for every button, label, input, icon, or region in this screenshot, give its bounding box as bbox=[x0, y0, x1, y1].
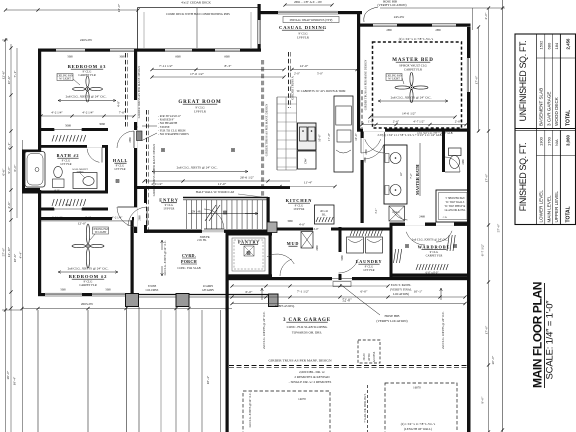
svg-text:3068: 3068 bbox=[119, 56, 125, 59]
svg-text:CASUAL DINING: CASUAL DINING bbox=[279, 25, 327, 30]
svg-text:4′-6″: 4′-6″ bbox=[299, 223, 306, 227]
svg-text:2x6 CLG. JOISTS @ 24″ O.C.: 2x6 CLG. JOISTS @ 24″ O.C. bbox=[262, 311, 266, 349]
svg-text:14′-0 1/2″: 14′-0 1/2″ bbox=[402, 112, 417, 116]
svg-text:2′-6″: 2′-6″ bbox=[393, 120, 400, 124]
svg-text:COMP. DECK WITH H2O CONDITIONI: COMP. DECK WITH H2O CONDITIONING PMS bbox=[166, 12, 230, 16]
svg-text:LVP FLR: LVP FLR bbox=[164, 207, 175, 211]
svg-text:57′-0″: 57′-0″ bbox=[2, 247, 6, 256]
svg-text:2x6 CLG. JOISTS @ 24″ O.C.: 2x6 CLG. JOISTS @ 24″ O.C. bbox=[412, 238, 449, 242]
svg-text:3′-1″: 3′-1″ bbox=[374, 207, 378, 213]
svg-text:26′-0″: 26′-0″ bbox=[6, 370, 10, 379]
svg-text:SCALE: 1/4″ = 1′-0″: SCALE: 1/4″ = 1′-0″ bbox=[545, 300, 556, 380]
svg-text:- SINGLE DR. w/ 2 REMOTES: - SINGLE DR. w/ 2 REMOTES bbox=[289, 380, 332, 384]
svg-text:LVT FLR: LVT FLR bbox=[60, 162, 71, 166]
svg-text:LVP FLR: LVP FLR bbox=[194, 110, 207, 114]
svg-text:BATH #2: BATH #2 bbox=[57, 153, 80, 158]
svg-text:2x6 CLG. JOISTS @ 24″ O.C.: 2x6 CLG. JOISTS @ 24″ O.C. bbox=[163, 240, 167, 275]
svg-text:MAIN LEVEL: MAIN LEVEL bbox=[546, 195, 551, 223]
svg-text:2868: 2868 bbox=[364, 157, 367, 163]
svg-text:7′-11 1/2″: 7′-11 1/2″ bbox=[159, 64, 174, 68]
svg-text:2468: 2468 bbox=[462, 159, 465, 165]
svg-text:GIRDER TRUSS AS PER MANF. DESI: GIRDER TRUSS AS PER MANF. DESIGN bbox=[364, 60, 368, 110]
svg-text:7′-1″: 7′-1″ bbox=[13, 70, 17, 77]
svg-text:7′-2″: 7′-2″ bbox=[409, 172, 413, 178]
svg-text:8′-3″: 8′-3″ bbox=[225, 64, 232, 68]
svg-text:20 AMPS: 20 AMPS bbox=[203, 285, 214, 288]
svg-text:2868: 2868 bbox=[386, 29, 392, 32]
svg-text:2′-0″: 2′-0″ bbox=[455, 120, 462, 124]
svg-text:2′-6″: 2′-6″ bbox=[85, 216, 92, 220]
svg-text:INSTALL WRAP WINDOWS (TYP): INSTALL WRAP WINDOWS (TYP) bbox=[290, 18, 333, 22]
svg-text:FINISHED SQ. FT.: FINISHED SQ. FT. bbox=[518, 143, 528, 212]
svg-text:6′-0″: 6′-0″ bbox=[361, 290, 368, 294]
svg-text:BEDROOM #2: BEDROOM #2 bbox=[69, 274, 108, 279]
svg-text:PORCH: PORCH bbox=[181, 259, 198, 264]
svg-text:5068: 5068 bbox=[105, 289, 111, 292]
svg-text:BASEMENT SLAB: BASEMENT SLAB bbox=[539, 88, 544, 126]
svg-text:2468: 2468 bbox=[419, 215, 425, 219]
svg-text:2151 FR.: 2151 FR. bbox=[197, 239, 207, 242]
svg-text:(2) 1 3/4″ x 11 7/8″ + 4 1/2″: (2) 1 3/4″ x 11 7/8″ + 4 1/2″ GLB bbox=[417, 132, 452, 135]
svg-text:57′-0″: 57′-0″ bbox=[497, 223, 501, 232]
svg-text:3,060: 3,060 bbox=[566, 134, 571, 146]
svg-text:2663.2W: 2663.2W bbox=[81, 302, 94, 306]
svg-text:5′-1″: 5′-1″ bbox=[360, 181, 364, 187]
svg-text:CONC. FLR SLAB: CONC. FLR SLAB bbox=[177, 266, 200, 270]
svg-text:MAIN FLOOR PLAN: MAIN FLOOR PLAN bbox=[531, 282, 545, 388]
svg-text:LAUNDRY: LAUNDRY bbox=[356, 259, 383, 264]
svg-text:17′-0 1/2″: 17′-0 1/2″ bbox=[190, 72, 205, 76]
svg-text:2x6 CLG. JOISTS @ 24″ O.C.: 2x6 CLG. JOISTS @ 24″ O.C. bbox=[441, 311, 445, 349]
svg-text:4′x12′ CEDAR DECK: 4′x12′ CEDAR DECK bbox=[181, 1, 211, 5]
svg-text:COLUMNS: COLUMNS bbox=[146, 289, 159, 292]
svg-text:2x6 CLG. JOISTS @ 24″ O.C.: 2x6 CLG. JOISTS @ 24″ O.C. bbox=[391, 96, 432, 100]
svg-text:STEPS AS REQ.: STEPS AS REQ. bbox=[275, 304, 295, 308]
svg-text:9′-0″: 9′-0″ bbox=[7, 166, 11, 173]
svg-text:(2) 1 3/4″ x 11 7/8″ L.V.L.’s: (2) 1 3/4″ x 11 7/8″ L.V.L.’s bbox=[399, 37, 434, 41]
svg-text:184: 184 bbox=[554, 42, 559, 49]
svg-text:ACCESS: ACCESS bbox=[372, 351, 376, 362]
svg-text:TOTAL: TOTAL bbox=[566, 110, 572, 126]
svg-text:3068: 3068 bbox=[287, 220, 293, 223]
svg-text:680: 680 bbox=[546, 42, 551, 49]
svg-text:6068: 6068 bbox=[224, 56, 230, 59]
svg-text:(VERIFY LOCATION): (VERIFY LOCATION) bbox=[376, 319, 407, 323]
svg-text:ATTIC: ATTIC bbox=[367, 353, 371, 361]
svg-text:CARPET FLR: CARPET FLR bbox=[404, 68, 423, 72]
svg-text:DW: DW bbox=[304, 158, 308, 163]
svg-text:5068: 5068 bbox=[67, 56, 73, 59]
svg-text:1300: 1300 bbox=[539, 136, 544, 146]
svg-text:TOWARDS OH. DRS.: TOWARDS OH. DRS. bbox=[292, 331, 323, 335]
svg-text:LVP FLR: LVP FLR bbox=[294, 207, 305, 211]
svg-text:18′-4″: 18′-4″ bbox=[206, 375, 210, 384]
svg-text:10′-6″: 10′-6″ bbox=[318, 133, 322, 141]
svg-text:14070: 14070 bbox=[298, 397, 306, 401]
svg-text:16070: 16070 bbox=[413, 386, 421, 390]
svg-text:PANTRY: PANTRY bbox=[238, 240, 260, 245]
svg-text:2868: 2868 bbox=[435, 29, 441, 32]
svg-text:2′-0″: 2′-0″ bbox=[294, 72, 301, 76]
svg-text:TOTAL: TOTAL bbox=[566, 206, 572, 222]
svg-text:30x30: 30x30 bbox=[362, 353, 366, 361]
svg-text:245.2W: 245.2W bbox=[394, 15, 405, 19]
svg-text:HOSE BIB: HOSE BIB bbox=[385, 314, 401, 318]
svg-text:5068: 5068 bbox=[341, 255, 344, 261]
svg-text:CARPET FLR: CARPET FLR bbox=[426, 254, 443, 258]
svg-text:10′-6″: 10′-6″ bbox=[7, 75, 11, 84]
svg-text:6′-7 1/2″: 6′-7 1/2″ bbox=[481, 243, 485, 256]
svg-text:LOCATION): LOCATION) bbox=[393, 292, 409, 296]
svg-text:(VERIFY FINAL: (VERIFY FINAL bbox=[390, 288, 412, 292]
svg-text:5′-0″: 5′-0″ bbox=[317, 72, 324, 76]
svg-text:2468: 2468 bbox=[365, 149, 368, 155]
svg-text:10′-6″: 10′-6″ bbox=[354, 132, 358, 140]
svg-text:7′ GAR. DR. HDR. HGT.: 7′ GAR. DR. HDR. HGT. bbox=[363, 393, 367, 422]
svg-text:1592: 1592 bbox=[539, 40, 544, 50]
svg-text:N/A: N/A bbox=[554, 139, 559, 146]
svg-text:5068: 5068 bbox=[65, 203, 71, 207]
svg-text:1760: 1760 bbox=[546, 136, 551, 146]
svg-text:6′-0″: 6′-0″ bbox=[246, 290, 253, 294]
svg-text:18′-4″: 18′-4″ bbox=[13, 376, 17, 385]
svg-text:HALL: HALL bbox=[113, 158, 128, 163]
svg-text:BEDROOM #3: BEDROOM #3 bbox=[68, 64, 107, 69]
svg-text:- NO WRAPPED SIDES: - NO WRAPPED SIDES bbox=[158, 132, 189, 136]
svg-text:18′-6″: 18′-6″ bbox=[13, 253, 17, 262]
svg-text:12′-6″: 12′-6″ bbox=[2, 70, 6, 79]
svg-text:2868: 2868 bbox=[129, 137, 132, 143]
svg-text:LOWER LEVEL: LOWER LEVEL bbox=[539, 190, 544, 223]
svg-text:LVP FLR: LVP FLR bbox=[297, 36, 310, 40]
svg-text:2868: 2868 bbox=[139, 215, 142, 221]
svg-text:(LENGTH OF WALL): (LENGTH OF WALL) bbox=[404, 427, 432, 431]
svg-text:GIRDER TRUSS AS PER MANF. DESI: GIRDER TRUSS AS PER MANF. DESIGN bbox=[152, 143, 156, 196]
svg-text:GIRDER TRUSS AS PER MANF. DESI: GIRDER TRUSS AS PER MANF. DESIGN bbox=[268, 359, 331, 363]
svg-text:UNFINISHED SQ. FT.: UNFINISHED SQ. FT. bbox=[518, 41, 528, 122]
svg-text:7′-1 1/2″: 7′-1 1/2″ bbox=[297, 290, 310, 294]
svg-text:(2) 1 3/4″ x 11 7/8″ L.V.L.’s: (2) 1 3/4″ x 11 7/8″ L.V.L.’s bbox=[401, 422, 436, 426]
svg-text:2,456: 2,456 bbox=[566, 38, 571, 50]
svg-text:W/ TILE WALLS: W/ TILE WALLS bbox=[446, 201, 465, 204]
svg-text:17′-0″: 17′-0″ bbox=[485, 173, 489, 182]
svg-text:9′-0″: 9′-0″ bbox=[481, 396, 485, 403]
svg-text:GLASS DR & PNL: GLASS DR & PNL bbox=[445, 209, 466, 212]
svg-text:KITCHEN: KITCHEN bbox=[286, 198, 313, 203]
svg-text:6′-0″: 6′-0″ bbox=[13, 164, 17, 171]
svg-text:12′-0″: 12′-0″ bbox=[117, 3, 121, 12]
svg-text:MASTER BATH: MASTER BATH bbox=[415, 164, 420, 195]
svg-text:12′-0″: 12′-0″ bbox=[78, 222, 87, 226]
svg-text:11′-4″: 11′-4″ bbox=[304, 181, 313, 185]
svg-text:2463.2W: 2463.2W bbox=[80, 38, 93, 42]
svg-text:ELECT. PANEL: ELECT. PANEL bbox=[391, 283, 412, 287]
svg-text:W/ LIGHT: W/ LIGHT bbox=[388, 78, 400, 81]
svg-text:CONC. FLR SLAB SLOPING: CONC. FLR SLAB SLOPING bbox=[287, 325, 328, 329]
svg-text:10′-1″: 10′-1″ bbox=[414, 290, 423, 294]
svg-text:17′-0″: 17′-0″ bbox=[475, 75, 479, 84]
svg-text:2x6 CLG. JOISTS @ 24″ O.C.: 2x6 CLG. JOISTS @ 24″ O.C. bbox=[177, 166, 218, 170]
svg-text:5068: 5068 bbox=[65, 124, 71, 128]
svg-text:2 REMOTES & KEYPAD: 2 REMOTES & KEYPAD bbox=[294, 375, 330, 379]
svg-text:GIRDER TRUSS AS PER MANF. DESI: GIRDER TRUSS AS PER MANF. DESIGN bbox=[265, 103, 269, 156]
svg-text:SINKS: SINKS bbox=[77, 170, 84, 173]
svg-text:7′-6″: 7′-6″ bbox=[119, 111, 126, 115]
svg-text:3 CAR GARAGE: 3 CAR GARAGE bbox=[546, 92, 551, 126]
svg-text:52′-0″: 52′-0″ bbox=[342, 299, 352, 303]
svg-text:2′-1″: 2′-1″ bbox=[7, 142, 11, 149]
svg-text:W/ LIGHT: W/ LIGHT bbox=[59, 78, 71, 81]
svg-text:WARDROBE: WARDROBE bbox=[418, 245, 451, 250]
svg-text:2668: 2668 bbox=[316, 245, 319, 251]
svg-text:4′-2 1/4″: 4′-2 1/4″ bbox=[112, 216, 123, 220]
svg-text:20′-0″: 20′-0″ bbox=[491, 355, 495, 364]
svg-text:4′-0″: 4′-0″ bbox=[313, 227, 319, 231]
svg-text:W/ CABINETS: W/ 42″s DOWN & TR: W/ CABINETS: W/ 42″s DOWN & TRIM bbox=[297, 89, 346, 93]
svg-text:4′-4″: 4′-4″ bbox=[19, 251, 23, 258]
svg-text:UPPER LEVEL: UPPER LEVEL bbox=[554, 191, 559, 223]
svg-text:WOOD DECK: WOOD DECK bbox=[554, 96, 559, 126]
svg-text:2′-6″: 2′-6″ bbox=[7, 201, 11, 208]
svg-text:LVT FLR: LVT FLR bbox=[114, 167, 125, 171]
svg-text:4′-7 1/2″: 4′-7 1/2″ bbox=[413, 120, 425, 124]
svg-text:ISL.: ISL. bbox=[322, 214, 327, 217]
svg-text:2x6 CLG. JOISTS @ 24″ O.C.: 2x6 CLG. JOISTS @ 24″ O.C. bbox=[66, 95, 107, 99]
svg-text:MUD: MUD bbox=[287, 241, 300, 246]
svg-text:12′-10″: 12′-10″ bbox=[7, 246, 11, 257]
svg-text:17′-0″: 17′-0″ bbox=[327, 132, 331, 141]
svg-text:GIRDER TRUSS A: GIRDER TRUSS A bbox=[291, 75, 295, 99]
svg-text:11′-0″: 11′-0″ bbox=[218, 182, 227, 186]
svg-text:C.D.: C.D. bbox=[443, 216, 448, 219]
svg-text:6068: 6068 bbox=[175, 56, 181, 59]
svg-text:3068: 3068 bbox=[99, 122, 105, 126]
svg-text:5′ SHOWER PAN: 5′ SHOWER PAN bbox=[445, 197, 464, 200]
svg-text:W/ TILE SHELF &: W/ TILE SHELF & bbox=[445, 205, 466, 208]
svg-text:CARPET FLR: CARPET FLR bbox=[79, 283, 96, 287]
svg-text:2′-6″: 2′-6″ bbox=[377, 134, 382, 137]
svg-text:4′-2 1/4″: 4′-2 1/4″ bbox=[52, 216, 63, 220]
svg-text:42″: 42″ bbox=[400, 172, 403, 176]
svg-text:DN 14R: DN 14R bbox=[191, 210, 201, 214]
svg-text:4′-2 1/4″: 4′-2 1/4″ bbox=[51, 111, 63, 115]
svg-text:LVT FLR: LVT FLR bbox=[363, 268, 374, 272]
svg-text:ENTRY: ENTRY bbox=[159, 198, 178, 203]
svg-text:12′-0″: 12′-0″ bbox=[300, 64, 309, 68]
svg-text:(VERIFY LOCATION): (VERIFY LOCATION) bbox=[377, 3, 406, 7]
svg-text:17′-0″: 17′-0″ bbox=[485, 325, 489, 334]
svg-text:26′-6 1/2″: 26′-6 1/2″ bbox=[240, 176, 255, 180]
svg-text:GIRDER TRUSS AS PER MANF. DESI: GIRDER TRUSS AS PER MANF. DESIGN bbox=[137, 65, 141, 118]
svg-text:4′-2 1/4″: 4′-2 1/4″ bbox=[82, 111, 94, 115]
svg-text:6′-6″: 6′-6″ bbox=[2, 168, 6, 175]
svg-text:1′-6″: 1′-6″ bbox=[368, 120, 375, 124]
svg-text:6′-0″: 6′-0″ bbox=[54, 190, 59, 193]
svg-text:HALF WALL W/ WOOD CAP: HALF WALL W/ WOOD CAP bbox=[196, 190, 235, 194]
svg-text:4′-8″: 4′-8″ bbox=[117, 100, 121, 107]
svg-text:2691 - 1/8″ A.T. -1W: 2691 - 1/8″ A.T. -1W bbox=[294, 0, 323, 4]
svg-text:STONE: STONE bbox=[148, 285, 157, 288]
svg-text:W/ LIGHT: W/ LIGHT bbox=[95, 231, 107, 234]
svg-text:2x6 CLG. JOISTS @ 24″ O.C.: 2x6 CLG. JOISTS @ 24″ O.C. bbox=[68, 267, 109, 271]
svg-text:5068: 5068 bbox=[60, 289, 66, 292]
svg-text:GFI AMPS: GFI AMPS bbox=[202, 289, 214, 292]
svg-text:2x6 CLG. JOISTS @ 24″ O.C.: 2x6 CLG. JOISTS @ 24″ O.C. bbox=[248, 392, 252, 427]
svg-text:CVRD.: CVRD. bbox=[182, 253, 196, 258]
svg-text:2′-0″: 2′-0″ bbox=[484, 12, 488, 19]
